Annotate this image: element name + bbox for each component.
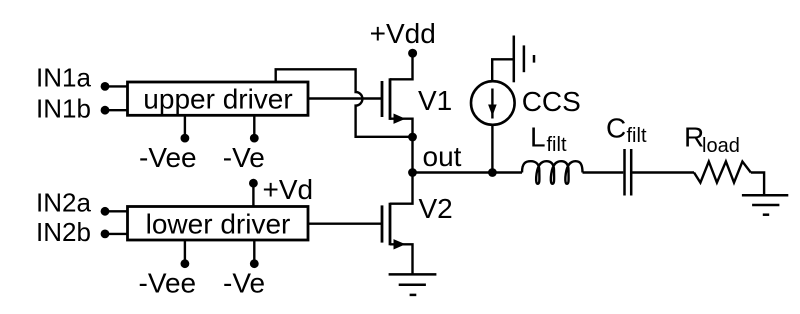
V1 gate bar xyxy=(381,81,384,117)
wire IN1b to upper driver xyxy=(105,109,128,111)
node V1 source junction dot xyxy=(408,133,417,142)
inductor Lfilt coil xyxy=(522,161,583,184)
CCS arrow stem xyxy=(491,89,493,119)
upper driver block U1 xyxy=(128,82,309,115)
V2 gate bar xyxy=(381,205,384,242)
svg-text:IN1b: IN1b xyxy=(36,94,91,124)
wire upper driver -Vee stub xyxy=(184,115,186,135)
svg-text:lower driver: lower driver xyxy=(146,209,291,240)
node IN1a pin dot xyxy=(101,82,110,91)
wire upper driver output to V1 gate xyxy=(308,97,381,99)
wire lower driver -Ve stub xyxy=(253,240,255,261)
svg-text:V2: V2 xyxy=(419,193,453,224)
node -Ve (lower) dot xyxy=(250,259,259,268)
svg-text:CCS: CCS xyxy=(522,86,581,117)
svg-text:-Vee: -Vee xyxy=(139,268,197,299)
CCS arrowhead xyxy=(488,105,497,117)
wire resistor to ground xyxy=(751,173,764,196)
svg-text:+Vd: +Vd xyxy=(263,174,314,205)
node IN1b pin dot xyxy=(101,106,110,115)
wire IN2b to lower driver xyxy=(105,233,128,235)
node +Vdd dot xyxy=(408,49,417,58)
ground (rotated) above CCS xyxy=(514,36,534,83)
wire capacitor to resistor xyxy=(632,171,694,173)
svg-text:+Vdd: +Vdd xyxy=(370,18,436,49)
current source CCS circle xyxy=(471,81,515,125)
V1 source wire xyxy=(390,119,413,173)
wire upper driver -Ve stub xyxy=(253,115,255,135)
V2 source wire xyxy=(390,244,413,274)
node +Vd dot xyxy=(249,179,258,188)
svg-text:IN2a: IN2a xyxy=(36,188,91,218)
svg-text:C: C xyxy=(606,113,626,144)
node IN2a pin dot xyxy=(101,207,110,216)
svg-text:IN1a: IN1a xyxy=(36,63,91,93)
wire out horizontal xyxy=(413,171,523,173)
wire IN1a to upper driver xyxy=(105,85,128,87)
wire IN2a to lower driver xyxy=(105,210,128,212)
ground below V2 xyxy=(389,274,437,295)
svg-text:-Ve: -Ve xyxy=(223,142,265,173)
wire CCS top to ground xyxy=(492,59,514,80)
wire CCS bottom to out xyxy=(491,125,493,173)
svg-text:upper driver: upper driver xyxy=(143,84,292,115)
V1 source arrow xyxy=(394,114,406,124)
svg-text:filt: filt xyxy=(547,134,567,156)
node -Vee (upper) dot xyxy=(181,134,190,143)
V2 source arrow xyxy=(394,239,406,249)
node out dot xyxy=(408,168,417,177)
node IN2b pin dot xyxy=(101,230,110,239)
V2 channel bar xyxy=(389,203,392,246)
svg-text:L: L xyxy=(530,122,546,153)
svg-text:out: out xyxy=(423,141,462,172)
svg-text:IN2b: IN2b xyxy=(36,217,91,247)
svg-text:-Ve: -Ve xyxy=(223,268,265,299)
svg-text:load: load xyxy=(702,135,740,157)
wire inductor to capacitor xyxy=(583,171,624,173)
node -Vee (lower) dot xyxy=(181,259,190,268)
wire lower driver -Vee stub xyxy=(184,240,186,261)
svg-text:V1: V1 xyxy=(418,85,452,116)
wire lower driver output to V2 gate xyxy=(308,222,381,224)
resistor Rload zigzag xyxy=(694,162,751,183)
wire upper driver floating supply: box top up, right, down with hop, to V1 source xyxy=(276,69,413,137)
svg-text:filt: filt xyxy=(627,125,647,147)
transistor V1 (NMOS) xyxy=(382,53,413,172)
node -Ve (upper) dot xyxy=(250,134,259,143)
V1 channel bar xyxy=(389,78,392,120)
wire V2 drain to out xyxy=(390,173,413,204)
lower driver block U2 xyxy=(128,207,309,241)
capacitor Cfilt plates xyxy=(623,149,626,196)
transistor V2 (NMOS) xyxy=(382,173,413,275)
ground right xyxy=(742,195,788,214)
svg-text:-Vee: -Vee xyxy=(139,142,197,173)
node CCS junction dot on out wire xyxy=(488,168,497,177)
wire +Vd to lower driver top xyxy=(252,183,254,206)
wire V1 drain to +Vdd xyxy=(390,53,413,79)
